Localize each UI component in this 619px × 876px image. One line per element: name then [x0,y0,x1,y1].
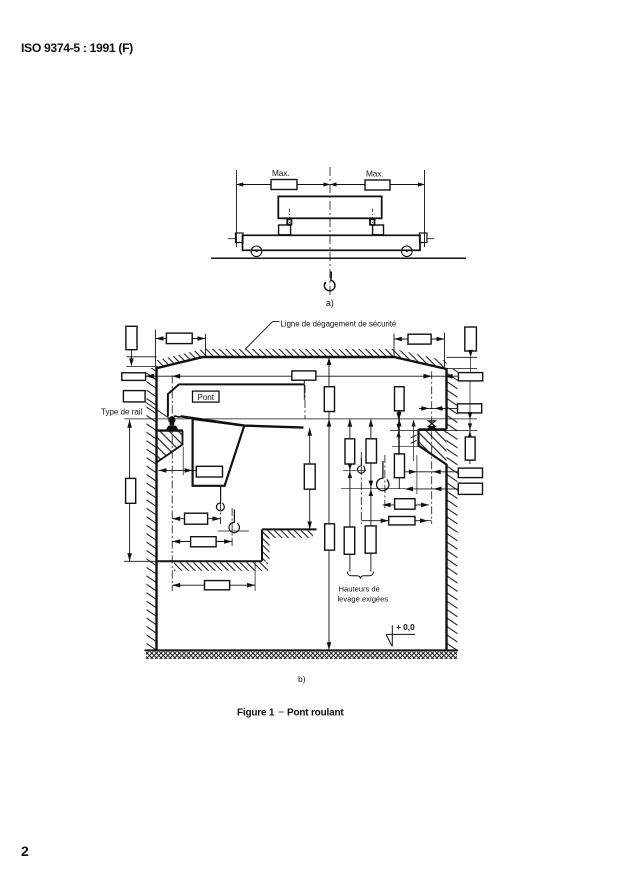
b: top-right ceiling dim [393,334,395,358]
b: ceiling flat level left ext [127,356,157,358]
fig a: right leg centerline [371,209,373,226]
svg-text:2: 2 [21,843,29,859]
b: bench step edge [261,529,263,561]
b: right corbel top [419,428,447,430]
b: gap dim line at rail [419,407,458,409]
b: rail dims x413.6 [413,421,415,462]
svg-text:a): a) [326,298,334,308]
b: right wall hatch [447,369,458,650]
fig a: left leg square [287,219,291,224]
b: hook C level line [343,469,366,471]
b: ext line x417 [416,455,418,494]
b: bench hatch lower [174,562,268,571]
svg-text:Max.: Max. [366,169,384,179]
b: girder bottom squiggle [174,416,181,417]
svg-text:b): b) [298,674,306,684]
b: dim line girder-bench [309,428,311,529]
b: dash-dot hook D CL [384,455,386,509]
fig a: right buffer [420,233,428,243]
b: left rail [166,423,178,430]
b: Pont label box [193,391,220,402]
svg-text:Hauteurs de: Hauteurs de [339,585,380,594]
b: hook D [377,461,389,491]
b: floor hatch [146,652,457,660]
b: right outer vert box R4 [469,431,471,464]
b: left wheel [168,416,175,423]
fig a: right buffer tick [427,238,435,240]
b: mid-right dim box row1 [383,504,430,506]
b: right wall inner face lower [445,464,447,651]
b: span dimension line [146,375,458,377]
b: left corbel face [157,431,183,463]
svg-text:levage exigées: levage exigées [338,595,389,604]
b: span dim box [292,371,316,380]
b: bracket hauteurs [349,554,351,571]
b: rail top level right ext [390,430,477,432]
b: right corbel outline [419,429,447,464]
b: dash-dot rail CL left [171,376,173,592]
b: right wheel [428,421,435,427]
b: hook A dim [172,518,220,520]
b: right rail [427,426,437,429]
b: left wall hatch [147,368,157,650]
b: right outer box R5 [458,468,482,478]
fig a: dimension line Max left [237,184,331,186]
svg-text:+ 0,0: + 0,0 [396,623,415,632]
b: dash-dot hook B CL [231,508,233,547]
b: ceiling profile line [157,357,447,369]
b: left corbel hatch [157,431,183,463]
b: dash-dot rail CL right [431,371,433,524]
b: lifting height line 1 [349,419,351,554]
b: center dim box lower [325,524,335,550]
fig a: left leg centerline [289,209,291,226]
b: hook approach dim line upper [404,471,458,473]
b: hook B [229,510,239,533]
b: left outer box L3 rail [123,391,145,402]
b: level mark [391,625,393,646]
fig a: ground line [211,257,466,259]
b: hook A [216,487,224,511]
b: hook approach dim line lower [405,488,458,490]
fig a: left wheel [251,246,262,257]
fig a: right foot box [373,225,384,235]
b: dash-dot girder end [304,385,306,419]
b: ceiling flat level right ext [447,356,478,358]
svg-text:Figure 1: Figure 1 [237,708,275,719]
b: corbel edge extension line [182,447,184,476]
b: bench width dim [172,584,255,586]
b: left corbel top [157,429,184,431]
b: ceiling wall level right ext [447,367,478,369]
b: right outer box R3 gap [458,404,482,413]
svg-text:Pont: Pont [198,393,215,402]
fig a: left extension line [236,170,238,247]
b: bench hatch upper [263,530,313,538]
fig a: hook [324,272,335,291]
fig a: dim box left [271,180,297,190]
b: mid-right dim box row2 [361,520,431,522]
fig a: trolley body [278,196,381,218]
b: lifting height line 2 [370,419,372,553]
b: small stacked arrows x398.6 [398,411,400,455]
fig a: right leg square [370,219,375,225]
b: bench lower level left ext [124,560,157,562]
b: ceiling wall level left ext [127,366,157,368]
b: center dim box upper [324,387,334,412]
b: girder bottom slope [181,416,304,427]
svg-text:Type de rail: Type de rail [101,408,143,417]
b: hoist trapezoid [193,419,245,486]
b: right outer box R2 span [458,373,482,381]
b: ceiling hatch band [157,349,447,369]
b: hook B level line [218,530,249,532]
b: hook C [358,458,365,473]
b: dash-dot hook A CL [219,487,221,524]
b: girder underside reference line [125,418,478,420]
fig a: left buffer [236,233,244,243]
b: corbel bottom level line [392,446,419,448]
b: girder top line [179,383,305,385]
b: left wall inner face [155,368,157,651]
fig a: right extension line [424,170,426,247]
b: hook B dim [172,541,232,543]
b: floor line [145,649,459,651]
b: girder end solid tick [303,381,305,401]
b: right wall inner face upper [445,368,447,429]
fig a: dim box right [365,180,390,190]
b: right outer box R6 [458,483,482,494]
b: top-left ceiling dim [154,330,156,368]
svg-text:Pont roulant: Pont roulant [287,708,344,719]
svg-text:ISO 9374-5 : 1991 (F): ISO 9374-5 : 1991 (F) [21,41,133,55]
b: right corbel hatch [419,429,447,464]
fig a: right wheel [402,246,413,257]
svg-text:Max.: Max. [272,168,290,178]
b: hoist dim line [159,469,197,471]
fig a: bridge girder [243,235,421,250]
b: left outer vertical dim L4 [129,420,131,562]
b: type de rail leader [146,403,171,420]
b: left outer box L2 span [122,373,146,381]
b: securite leader line [245,321,280,349]
b: center full-height dim line [328,358,330,651]
b: girder left edge with chamfer [168,384,179,416]
fig a: dimension line Max right [330,184,425,186]
svg-text:Ligne de dégagement de sécurit: Ligne de dégagement de sécurité [281,319,397,328]
b: hook D level line [341,487,405,489]
b: dash-dot hook C CL [360,452,362,524]
b: bench upper top [262,528,317,530]
b: bench lower top [157,560,263,562]
fig a: centerline [329,167,331,298]
fig a: left foot box [279,225,291,235]
b: left outer box L1 [126,326,137,349]
fig a: left buffer tick [228,238,236,240]
b: right outer box R1 [465,327,477,351]
b: lifting height line 3 [398,411,400,489]
